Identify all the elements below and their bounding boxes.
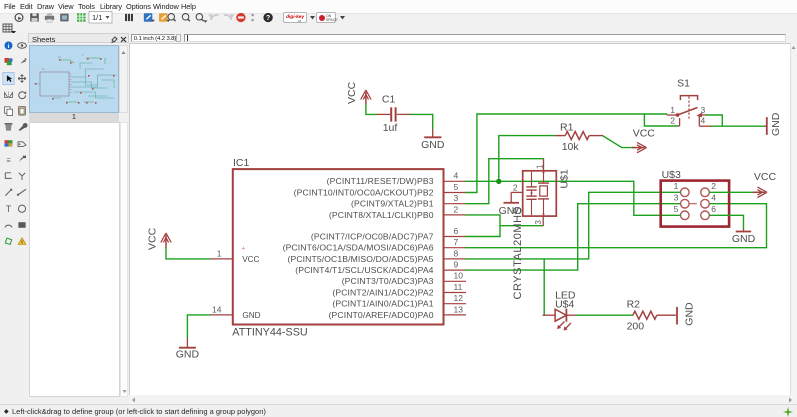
S1 pin 3 lead bbox=[699, 104, 707, 114]
svg-text:11: 11 bbox=[454, 281, 463, 291]
svg-text:GND: GND bbox=[242, 311, 260, 320]
svg-text:GND: GND bbox=[684, 301, 696, 325]
resistor R2 200 bbox=[627, 298, 676, 332]
wire LED cathode to R2 bbox=[576, 314, 633, 316]
wire U$3 pin 6 to ground bbox=[709, 215, 743, 229]
svg-text:3: 3 bbox=[534, 220, 543, 224]
svg-text:GND: GND bbox=[732, 232, 756, 244]
wire vertical continuation to IC pin 6 bbox=[465, 225, 500, 236]
svg-text:4: 4 bbox=[711, 192, 716, 202]
svg-text:T: T bbox=[6, 204, 12, 214]
svg-text:IC: IC bbox=[42, 67, 45, 71]
crystal pin 2 lead to ground bbox=[511, 182, 523, 202]
wire VCC symbol to IC pin 1 bbox=[166, 247, 210, 259]
svg-text:VCC: VCC bbox=[242, 254, 259, 263]
svg-text:(PCINT3/T0/ADC3)PA3: (PCINT3/T0/ADC3)PA3 bbox=[342, 276, 434, 286]
wire branch junction up to R1 bbox=[499, 135, 556, 181]
svg-text:(PCINT4/T1/SCL/USCK/ADC4)PA4: (PCINT4/T1/SCL/USCK/ADC4)PA4 bbox=[295, 265, 433, 275]
ground symbol at C1 bbox=[421, 129, 445, 151]
ground symbol below U$3 bbox=[732, 229, 756, 245]
svg-text:s1: s1 bbox=[58, 55, 61, 59]
svg-text:U$1: U$1 bbox=[559, 169, 571, 188]
svg-text:VCC: VCC bbox=[147, 227, 159, 250]
wire VCC to C1 left plate bbox=[366, 104, 377, 114]
ground symbol right of R2 (rotated) bbox=[677, 301, 696, 325]
svg-text:1: 1 bbox=[217, 248, 222, 258]
wire net XTAL2: IC pin 3 to resonator pin 1 bbox=[465, 158, 543, 203]
svg-text:10: 10 bbox=[454, 270, 464, 280]
switch S1 pushbutton bbox=[676, 77, 703, 118]
svg-text:c: c bbox=[82, 54, 84, 57]
svg-text:3: 3 bbox=[674, 192, 679, 202]
svg-text:VCC: VCC bbox=[346, 81, 358, 104]
svg-text:13: 13 bbox=[454, 304, 464, 314]
svg-text:12: 12 bbox=[454, 293, 464, 303]
wire net MOSI: IC pin 7 loop to U$3 pin 4 bbox=[465, 203, 766, 247]
wire net XTAL1: IC pin 2 to resonator pin 3 and IC pin 6 bbox=[465, 214, 543, 225]
svg-text:1: 1 bbox=[674, 181, 679, 191]
svg-text:C1: C1 bbox=[382, 93, 396, 105]
S1 pin 2 lead bbox=[670, 115, 679, 125]
crystal pin 1 lead bbox=[535, 158, 544, 171]
svg-text:(PCINT2/AIN1/ADC2)PA2: (PCINT2/AIN1/ADC2)PA2 bbox=[332, 287, 433, 297]
svg-text:1uf: 1uf bbox=[383, 121, 398, 133]
svg-text:GND: GND bbox=[499, 205, 523, 217]
svg-text:3: 3 bbox=[454, 193, 459, 203]
svg-text:U$3: U$3 bbox=[662, 168, 681, 180]
svg-text:10k: 10k bbox=[562, 140, 580, 152]
svg-text:VCC: VCC bbox=[633, 127, 656, 139]
supply VCC symbol at IC pin 1 bbox=[147, 227, 172, 250]
svg-text:8: 8 bbox=[454, 248, 459, 258]
svg-text:3: 3 bbox=[701, 104, 706, 114]
svg-text:1: 1 bbox=[670, 104, 675, 114]
wire net IC pin 5 to switch S1 bbox=[465, 114, 667, 193]
svg-text:R1: R1 bbox=[560, 121, 574, 133]
svg-text:CRYSTAL20MHS: CRYSTAL20MHS bbox=[512, 206, 524, 299]
svg-text:GND: GND bbox=[176, 348, 200, 360]
wire S1 pins 3,4 to ground bbox=[706, 115, 764, 126]
junction node on RESET net bbox=[496, 178, 501, 183]
svg-text:GND: GND bbox=[421, 138, 445, 150]
svg-text:GND: GND bbox=[770, 112, 782, 136]
wire net MISO: IC pin 8 to U$3 pin 1 bbox=[465, 192, 681, 259]
svg-text:(PCINT9/XTAL2)PB1: (PCINT9/XTAL2)PB1 bbox=[351, 198, 434, 208]
svg-text:200: 200 bbox=[627, 320, 645, 332]
ground symbol at IC pin 14 bbox=[176, 337, 200, 360]
crystal U$1 CRYSTAL20MHS resonator bbox=[512, 169, 571, 299]
IC IC1 ATTINY44-SSU body bbox=[232, 157, 443, 338]
svg-text:(PCINT8/XTAL1/CLKI)PB0: (PCINT8/XTAL1/CLKI)PB0 bbox=[329, 209, 434, 219]
wire C1 right plate to ground bbox=[410, 114, 433, 129]
svg-text:(PCINT5/OC1B/MISO/DO/ADC5)PA5: (PCINT5/OC1B/MISO/DO/ADC5)PA5 bbox=[287, 253, 433, 263]
svg-text:R2: R2 bbox=[627, 298, 641, 310]
S1 pin 1 lead bbox=[667, 104, 678, 114]
LED U$4 bbox=[543, 289, 577, 330]
svg-text:IC1: IC1 bbox=[233, 157, 250, 169]
svg-text:1/1: 1/1 bbox=[92, 13, 102, 22]
IC1 left pin 1 (VCC) lead and number bbox=[210, 248, 233, 259]
svg-text:4: 4 bbox=[454, 170, 459, 180]
svg-text:14: 14 bbox=[212, 304, 222, 314]
wire net SCK: IC pin 9 to U$3 pin 3 bbox=[465, 203, 681, 269]
svg-text:(PCINT10/INT0/OC0A/CKOUT)PB2: (PCINT10/INT0/OC0A/CKOUT)PB2 bbox=[294, 187, 434, 197]
supply VCC symbol right of U$3 bbox=[753, 171, 777, 198]
wire IC pin 14 to ground bbox=[187, 314, 210, 338]
crystal pin 3 lead bbox=[534, 216, 543, 226]
S1 pin 4 lead bbox=[699, 115, 711, 126]
svg-text:2: 2 bbox=[454, 204, 459, 214]
IC1 left pin 14 (GND) lead and number bbox=[210, 304, 233, 315]
wire jog into S1 pin 2 bbox=[644, 114, 678, 126]
svg-text:≡: ≡ bbox=[6, 156, 10, 165]
supply VCC symbol right of R1 bbox=[632, 127, 655, 152]
svg-text:5: 5 bbox=[674, 204, 679, 214]
svg-text:?: ? bbox=[266, 13, 270, 22]
svg-text:S1: S1 bbox=[677, 77, 690, 89]
resistor R1 10k bbox=[555, 121, 603, 152]
capacitor C1 1uf bbox=[377, 93, 411, 134]
svg-text:(PCINT1/AIN0/ADC1)PA1: (PCINT1/AIN0/ADC1)PA1 bbox=[332, 298, 433, 308]
wire branch to LED anode bbox=[543, 258, 546, 314]
svg-text:i: i bbox=[8, 43, 10, 50]
svg-text:(PCINT0/AREF/ADC0)PA0: (PCINT0/AREF/ADC0)PA0 bbox=[329, 309, 434, 319]
svg-text:ATTINY44-SSU: ATTINY44-SSU bbox=[232, 326, 307, 338]
svg-text:9: 9 bbox=[454, 259, 459, 269]
svg-text:5: 5 bbox=[454, 181, 459, 191]
svg-text:2: 2 bbox=[670, 115, 675, 125]
svg-text:1: 1 bbox=[535, 164, 544, 168]
svg-text:(PCINT11/RESET/DW)PB3: (PCINT11/RESET/DW)PB3 bbox=[327, 176, 434, 186]
svg-text:7: 7 bbox=[454, 237, 459, 247]
svg-text:+: + bbox=[241, 245, 245, 252]
svg-text:6: 6 bbox=[454, 225, 459, 235]
svg-text:(PCINT6/OC1A/SDA/MOSI/ADC6)PA6: (PCINT6/OC1A/SDA/MOSI/ADC6)PA6 bbox=[283, 242, 434, 252]
svg-text:(PCINT7/ICP/OC0B/ADC7)PA7: (PCINT7/ICP/OC0B/ADC7)PA7 bbox=[311, 231, 434, 241]
ground symbol right of S1 (rotated) bbox=[764, 112, 782, 136]
wire R1 to VCC arrow bbox=[603, 135, 636, 147]
svg-text:6: 6 bbox=[711, 204, 716, 214]
ground symbol at crystal pin 2 bbox=[499, 202, 523, 216]
supply VCC symbol at C1 bbox=[346, 81, 371, 104]
IC1 right pin leads, numbers and pin labels PB3..PA0 bbox=[283, 170, 466, 319]
svg-text:2: 2 bbox=[513, 182, 518, 192]
wire U$3 pin 2 to VCC bbox=[709, 191, 761, 193]
svg-text:VCC: VCC bbox=[754, 171, 777, 183]
svg-text:4: 4 bbox=[701, 115, 706, 125]
svg-text:2: 2 bbox=[711, 181, 716, 191]
wire net RESET: IC pin 4 to ISP header U$3 pin 5 bbox=[465, 181, 681, 215]
connector U$3 ISP header 2x3 bbox=[661, 168, 729, 226]
svg-text:U$4: U$4 bbox=[555, 298, 574, 310]
